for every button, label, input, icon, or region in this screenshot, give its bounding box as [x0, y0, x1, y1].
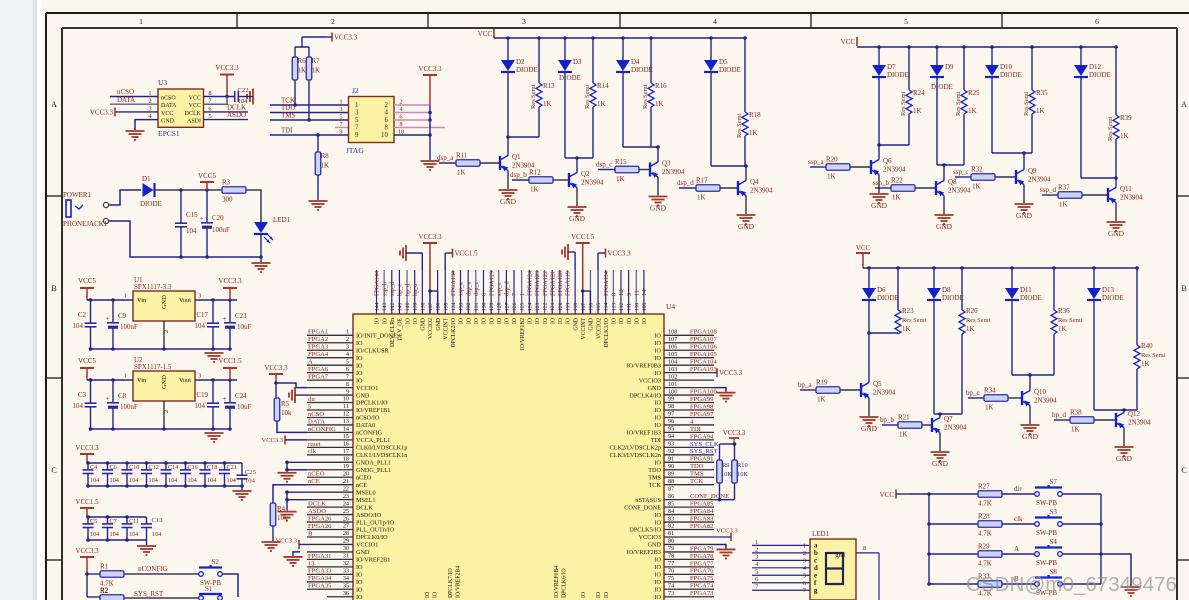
ground under Q1 [499, 189, 518, 191]
svg-text:FPGA91: FPGA91 [690, 456, 713, 463]
wire R7 to TMS net [308, 80, 310, 120]
svg-text:IO/VREF0B4: IO/VREF0B4 [554, 566, 560, 598]
svg-text:VCC5: VCC5 [78, 277, 96, 285]
svg-text:DCLK: DCLK [185, 111, 202, 117]
svg-text:VCCIO2: VCCIO2 [596, 318, 602, 339]
svg-text:VCC3.3: VCC3.3 [215, 64, 239, 72]
svg-text:C17: C17 [196, 311, 208, 319]
svg-text:ssp_b: ssp_b [381, 282, 388, 296]
svg-text:VCC1.5: VCC1.5 [455, 250, 479, 258]
svg-text:PLL_OUTn/IO: PLL_OUTn/IO [356, 527, 395, 534]
wire D5 to junction [710, 72, 712, 166]
U4 right pin 92 CLK3/LVDSCLK2n [664, 454, 714, 456]
svg-text:1K: 1K [530, 186, 539, 194]
wire R5 net [274, 381, 278, 385]
svg-text:R16: R16 [655, 82, 667, 90]
svg-text:GND: GND [932, 459, 949, 468]
transistor Q8 2N3904 [935, 181, 937, 195]
svg-text:100uF: 100uF [120, 403, 138, 411]
svg-text:FPGA144: FPGA144 [374, 271, 381, 296]
power VCC3.3 into U3 pin3 [115, 111, 158, 113]
svg-text:89: 89 [668, 470, 674, 477]
svg-text:104: 104 [207, 477, 216, 484]
U4 left pin 16 CLK0/LVDSCLK1p [307, 446, 353, 448]
svg-text:83: 83 [668, 515, 674, 522]
U4 right pin 75 IO [664, 581, 714, 583]
svg-text:FPGA103: FPGA103 [690, 366, 717, 373]
wire Q12 emitter to ground [1123, 428, 1125, 447]
resistor R4 [273, 485, 307, 503]
svg-text:GND: GND [569, 214, 586, 223]
wire junction to Q1 collector [508, 136, 539, 138]
svg-text:FPGA2: FPGA2 [308, 336, 328, 343]
svg-text:1K: 1K [1059, 201, 1068, 209]
svg-text:104: 104 [227, 477, 236, 484]
capacitor C12 [146, 463, 148, 470]
regulator U2 SPX1117-1.5 [133, 371, 195, 401]
svg-text:S1: S1 [205, 585, 213, 593]
svg-text:GND: GND [356, 549, 370, 556]
svg-text:g: g [814, 588, 818, 595]
svg-text:GND: GND [738, 222, 755, 231]
svg-text:87: 87 [668, 485, 674, 492]
U4 left pin 3 IO/CLKUSR [307, 349, 353, 351]
svg-text:FPGA73: FPGA73 [690, 590, 714, 597]
svg-text:144: 144 [375, 302, 381, 311]
svg-text:dsp_b: dsp_b [510, 171, 527, 179]
svg-text:1K: 1K [597, 100, 606, 108]
svg-text:C22: C22 [238, 87, 249, 94]
svg-text:IO: IO [654, 564, 661, 571]
svg-text:IO: IO [654, 512, 661, 519]
svg-text:1: 1 [339, 99, 342, 106]
svg-text:VCCIO3: VCCIO3 [639, 377, 661, 384]
svg-text:IO: IO [581, 592, 587, 598]
capacitor C21 [224, 463, 226, 470]
U4 right pin 106 IO [664, 349, 714, 351]
power VCC3.3 bar right [598, 252, 606, 254]
svg-text:32: 32 [343, 560, 349, 567]
svg-text:IO: IO [405, 318, 411, 324]
wire DATA to U3 pin2 [110, 103, 158, 105]
svg-text:10k: 10k [281, 409, 292, 417]
svg-text:36: 36 [343, 590, 349, 597]
svg-text:1K: 1K [817, 396, 826, 404]
svg-text:FPGA35: FPGA35 [308, 583, 332, 590]
capacitor C7 [107, 517, 109, 524]
svg-text:97: 97 [668, 411, 674, 418]
wire bottom power return [109, 221, 261, 257]
wire VCC3.3 to pins 137/136 [428, 289, 432, 293]
svg-text:99: 99 [668, 396, 674, 403]
svg-text:21: 21 [343, 478, 349, 485]
U4 top pin 133 [460, 270, 462, 314]
svg-text:FPGA75: FPGA75 [690, 575, 714, 582]
svg-text:11: 11 [633, 290, 640, 296]
U4 left pin 24 DCLK [307, 506, 353, 508]
svg-text:125: 125 [520, 302, 526, 311]
LED1 7-segment display [810, 539, 856, 600]
svg-text:R18: R18 [749, 111, 761, 119]
svg-text:3: 3 [339, 106, 342, 113]
ground under Q2 [568, 206, 587, 208]
svg-text:ASDO/IO: ASDO/IO [356, 512, 382, 519]
svg-text:Vout: Vout [179, 377, 191, 384]
svg-text:2N3904: 2N3904 [1120, 194, 1143, 202]
svg-text:IO/VREF0B3: IO/VREF0B3 [627, 362, 661, 369]
svg-text:ssp_d: ssp_d [1040, 186, 1056, 194]
svg-text:1: 1 [755, 539, 758, 546]
svg-text:VCC: VCC [856, 244, 871, 252]
frame column ticks and numbers [236, 13, 238, 28]
svg-text:Res Semi: Res Semi [1023, 91, 1030, 116]
svg-text:Q11: Q11 [1120, 185, 1132, 193]
svg-text:FPGA134: FPGA134 [450, 271, 457, 296]
U4 left pin 27 PLL_OUTn/IO [307, 529, 353, 531]
svg-text:IO/INIT_DONE: IO/INIT_DONE [356, 333, 397, 340]
svg-text:1: 1 [124, 373, 127, 380]
svg-text:nSTASUS: nSTASUS [635, 497, 661, 504]
svg-text:FPGA33: FPGA33 [308, 568, 332, 575]
switch S2 [199, 572, 204, 577]
svg-text:+: + [106, 315, 110, 323]
U4 right pin 101 GND [664, 387, 714, 389]
svg-text:D3: D3 [573, 58, 582, 66]
capacitor C18 [204, 463, 206, 470]
svg-text:IO: IO [654, 557, 661, 564]
svg-text:33: 33 [343, 568, 349, 575]
svg-text:104: 104 [110, 477, 119, 484]
svg-text:R17: R17 [696, 177, 708, 185]
svg-text:VCC3.3: VCC3.3 [75, 547, 99, 555]
diode D9 [936, 47, 938, 65]
svg-text:FPGA129: FPGA129 [488, 271, 495, 296]
svg-text:D8: D8 [942, 286, 951, 294]
svg-text:DIODE: DIODE [1020, 294, 1042, 302]
svg-text:IO: IO [356, 564, 363, 571]
wire D3 to junction [564, 72, 566, 158]
U4 top pin 120 [559, 270, 561, 314]
svg-text:C8: C8 [118, 392, 127, 400]
U4 right pin 94 TDI [664, 439, 714, 441]
svg-text:6: 6 [803, 580, 806, 587]
U4 left pin 6 IO [307, 372, 353, 374]
svg-text:Res Semi: Res Semi [530, 84, 537, 109]
svg-text:a: a [814, 543, 818, 550]
svg-text:5: 5 [346, 358, 349, 365]
connector J2 JTAG header [349, 97, 395, 143]
svg-text:R21: R21 [898, 414, 910, 422]
svg-text:IO: IO [654, 594, 661, 600]
wire LED to ground [260, 235, 262, 262]
svg-text:DIODE: DIODE [1102, 294, 1124, 302]
wire switch to bus [1062, 493, 1101, 495]
wire D2 to junction [507, 72, 509, 137]
svg-text:R39: R39 [1120, 114, 1132, 122]
U4 right pin 81 VCCIO3 [664, 536, 714, 538]
svg-text:c: c [814, 558, 817, 565]
svg-text:110: 110 [634, 303, 640, 311]
U4 right pin 80 GND [664, 543, 714, 545]
FPGA U4 body [353, 314, 664, 600]
svg-text:d: d [814, 565, 818, 572]
svg-text:104: 104 [90, 531, 99, 538]
diode D6 [868, 268, 870, 288]
svg-text:9: 9 [339, 129, 342, 136]
svg-text:IO: IO [654, 333, 661, 340]
svg-text:93: 93 [668, 441, 674, 448]
svg-text:FPGA26: FPGA26 [308, 515, 332, 522]
svg-text:2N3904: 2N3904 [1034, 397, 1057, 405]
svg-text:85: 85 [668, 500, 674, 507]
resistor R16 (Res Semi) [650, 38, 652, 83]
svg-text:82: 82 [668, 523, 674, 530]
svg-text:2: 2 [755, 546, 758, 553]
U4 top pin 134 [452, 270, 454, 314]
svg-text:TMS: TMS [648, 474, 661, 481]
svg-text:DEV_OE: DEV_OE [398, 318, 404, 341]
svg-text:U3: U3 [158, 78, 167, 87]
svg-text:IO: IO [654, 572, 661, 579]
svg-text:FPGA121: FPGA121 [549, 271, 556, 296]
svg-text:R10: R10 [737, 462, 748, 469]
svg-text:IO/VREF1B1: IO/VREF1B1 [356, 407, 390, 414]
svg-text:IO: IO [654, 519, 661, 526]
svg-text:DIODE: DIODE [516, 66, 538, 74]
resistor R8 [317, 135, 319, 152]
wire VCC to R1 and R2 [87, 573, 100, 575]
svg-text:104: 104 [129, 531, 138, 538]
ground under Q6 [870, 193, 889, 195]
svg-text:1K: 1K [972, 183, 981, 191]
svg-text:nCONFIG: nCONFIG [356, 430, 383, 437]
svg-text:105: 105 [668, 351, 677, 358]
U4 left pin 26 PLL_OUTp/IO [307, 521, 353, 523]
U4 left pin 11 IO/VREF1B1 [307, 409, 353, 411]
capacitor C3 [90, 380, 92, 403]
svg-text:1K: 1K [312, 67, 321, 75]
svg-text:IO: IO [356, 370, 363, 377]
wire switch to bus [1062, 523, 1101, 525]
transistor Q7 2N3904 [931, 418, 933, 432]
U4 left pin 12 nCSO/IO [307, 416, 353, 418]
svg-text:J2: J2 [352, 86, 359, 95]
diode D2 [507, 38, 509, 60]
svg-text:VCC3.3: VCC3.3 [716, 527, 739, 534]
svg-text:104: 104 [186, 227, 197, 235]
svg-text:TMS: TMS [690, 471, 704, 478]
svg-text:Res Semi: Res Semi [642, 84, 649, 109]
svg-text:IO: IO [356, 355, 363, 362]
svg-text:dir: dir [1014, 485, 1022, 493]
svg-text:C2: C2 [78, 311, 87, 319]
svg-text:TCK: TCK [649, 482, 662, 489]
svg-text:FPGA124: FPGA124 [527, 271, 534, 296]
U4 top pin 129 [490, 270, 492, 314]
svg-text:A: A [1014, 545, 1019, 553]
U4 right pin 107 IO [664, 342, 714, 344]
svg-text:TDO: TDO [648, 467, 661, 474]
svg-text:104: 104 [110, 531, 119, 538]
resistor R33 [929, 583, 978, 585]
svg-text:Res Semi: Res Semi [966, 317, 991, 324]
svg-text:VCC3.3: VCC3.3 [276, 537, 298, 544]
switch S7 [1035, 492, 1040, 497]
svg-text:104: 104 [149, 477, 158, 484]
svg-text:C20: C20 [212, 214, 224, 222]
svg-text:IO: IO [356, 586, 363, 593]
svg-text:104: 104 [668, 358, 677, 365]
svg-text:JTAG: JTAG [346, 146, 364, 155]
svg-text:IO/CLKUSR: IO/CLKUSR [356, 347, 390, 354]
U4 left pin 36 IO [327, 596, 353, 598]
U4 top pin 139 [414, 270, 416, 314]
svg-text:R34: R34 [984, 387, 996, 395]
svg-text:DATA: DATA [161, 103, 177, 109]
U4 top pin 118 [574, 270, 576, 314]
svg-text:VCC3.3: VCC3.3 [608, 250, 632, 258]
net TDI [270, 134, 348, 136]
svg-text:IO: IO [654, 422, 661, 429]
svg-text:136: 136 [436, 302, 442, 311]
svg-text:14: 14 [343, 426, 349, 433]
switch S4 [1035, 552, 1040, 557]
svg-text:115: 115 [596, 303, 602, 311]
U4 right pin 88 TCK [664, 484, 714, 486]
wire Q7 emitter to ground [939, 433, 941, 452]
svg-text:Res Semi: Res Semi [902, 317, 927, 324]
svg-text:VCC: VCC [161, 111, 173, 117]
U4 right pin 76 IO [664, 573, 714, 575]
U4 left pin 35 IO [307, 588, 353, 590]
svg-text:R35: R35 [1036, 89, 1048, 97]
svg-text:IO: IO [654, 347, 661, 354]
capacitor C11 [126, 517, 128, 524]
svg-text:DCLK: DCLK [356, 504, 373, 511]
svg-text:128: 128 [497, 302, 503, 311]
resistor R25 (Res Semi) [963, 47, 965, 90]
svg-text:R38: R38 [1070, 409, 1082, 417]
svg-text:e: e [814, 573, 817, 580]
svg-text:6: 6 [346, 366, 349, 373]
svg-text:1: 1 [346, 329, 349, 336]
wire VCC bus dsp [494, 37, 746, 39]
svg-text:124: 124 [527, 302, 533, 311]
svg-text:120: 120 [558, 302, 564, 311]
svg-text:9: 9 [626, 293, 633, 296]
svg-text:3: 3 [346, 343, 349, 350]
svg-text:SW-PB: SW-PB [1036, 529, 1057, 537]
svg-text:nCONFIG: nCONFIG [308, 426, 336, 433]
svg-text:R1: R1 [100, 563, 109, 571]
U4 top pin 112 [620, 270, 622, 314]
svg-text:SPX1117-1.5: SPX1117-1.5 [134, 363, 172, 371]
U4 top pin 110 [635, 270, 637, 314]
LED1 seven segment glyph [826, 553, 843, 584]
svg-text:IO: IO [356, 340, 363, 347]
svg-text:R19: R19 [816, 379, 828, 387]
transistor Q5 2N3904 [860, 383, 862, 397]
net B wire [1002, 583, 1035, 585]
capacitor C23 [229, 300, 231, 322]
svg-text:R32: R32 [971, 166, 983, 174]
svg-text:Q7: Q7 [944, 415, 953, 423]
svg-text:C23: C23 [235, 312, 247, 320]
resistor R40 (Res Semi) [1136, 268, 1138, 345]
svg-text:+: + [200, 215, 204, 223]
svg-text:VCC: VCC [189, 103, 201, 109]
ground under R8 [309, 200, 328, 202]
svg-text:GNDG_PLL1: GNDG_PLL1 [356, 467, 391, 474]
svg-text:127: 127 [504, 302, 510, 311]
cap row VCC1.5 buses [87, 516, 147, 518]
wire Vout [195, 299, 237, 301]
resistor R3 [222, 187, 246, 194]
U4 right pin 108 IO [664, 334, 714, 336]
svg-text:2: 2 [331, 17, 335, 26]
svg-text:ssp_a: ssp_a [808, 158, 824, 166]
svg-text:GND: GND [161, 119, 175, 125]
svg-text:IO: IO [642, 318, 648, 324]
wire junction D13/R40 [1094, 409, 1137, 411]
svg-text:140: 140 [405, 302, 411, 311]
svg-text:PLL_OUTp/IO: PLL_OUTp/IO [356, 519, 395, 526]
svg-text:1K: 1K [697, 194, 706, 202]
svg-text:98: 98 [668, 403, 674, 410]
svg-text:101: 101 [668, 381, 677, 388]
svg-text:DIODE: DIODE [1000, 71, 1022, 79]
svg-text:IO: IO [356, 362, 363, 369]
svg-text:LED1: LED1 [273, 216, 291, 224]
svg-text:bp_a: bp_a [798, 381, 813, 389]
svg-text:A: A [1181, 100, 1187, 109]
wire switch to bus [1062, 553, 1101, 555]
svg-text:6: 6 [481, 293, 488, 296]
svg-text:bp_a: bp_a [412, 284, 419, 296]
capacitor C13 [146, 517, 148, 524]
diode D3 [564, 38, 566, 60]
ground under regulator [205, 432, 224, 434]
svg-text:2N3904: 2N3904 [948, 187, 971, 195]
ground under Q5 [860, 416, 879, 418]
svg-text:10K: 10K [737, 471, 748, 478]
U4 top pin 124 [528, 270, 530, 314]
svg-text:3: 3 [198, 293, 201, 300]
svg-text:IO/VREF2B3: IO/VREF2B3 [627, 549, 661, 556]
left gray gutter [0, 0, 37, 600]
U4 left pin 22 MSEL0 [307, 491, 353, 493]
svg-text:FPGA79: FPGA79 [690, 545, 714, 552]
svg-text:FPGA119: FPGA119 [565, 271, 572, 296]
svg-text:35: 35 [343, 582, 349, 589]
svg-text:1K: 1K [543, 100, 552, 108]
svg-text:IO: IO [356, 594, 363, 600]
svg-text:C10: C10 [129, 464, 139, 471]
svg-text:IO: IO [413, 318, 419, 324]
svg-text:138: 138 [420, 302, 426, 311]
svg-text:FPGA106: FPGA106 [690, 344, 717, 351]
U4 right pin 96 IO [664, 424, 714, 426]
svg-text:26: 26 [343, 515, 349, 522]
svg-text:Vout: Vout [179, 297, 191, 304]
svg-text:+: + [223, 395, 227, 403]
svg-text:FPGA98: FPGA98 [690, 403, 714, 410]
svg-text:A: A [51, 100, 57, 109]
svg-text:C19: C19 [196, 391, 208, 399]
svg-text:84: 84 [668, 508, 674, 515]
wire junction to Q4 collector [711, 165, 746, 167]
U4 left pin 19 GNDG_PLL1 [307, 469, 353, 471]
